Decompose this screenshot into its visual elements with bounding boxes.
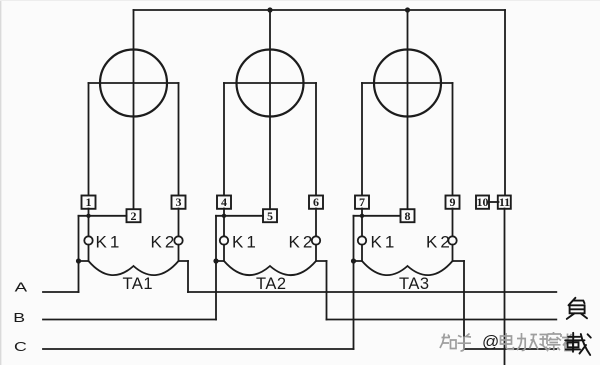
svg-text:9: 9 bbox=[450, 195, 456, 209]
meter element circle W2 bbox=[237, 50, 304, 117]
wire: phase A continues to load bbox=[188, 291, 556, 293]
wire: K1 TA3 down to primary bbox=[361, 245, 363, 261]
wire: phase B continues to load bbox=[327, 319, 557, 321]
wire: TA2 out drop to phase B level bbox=[326, 261, 328, 320]
svg-text:K2: K2 bbox=[289, 232, 316, 251]
svg-text:8: 8 bbox=[405, 209, 411, 223]
top edge shading bbox=[0, 0, 600, 1]
wire: drop to terminal 3 bbox=[178, 83, 180, 196]
wire: K2 TA3 down to primary bbox=[452, 245, 454, 261]
wire: phase A in from left bbox=[43, 291, 79, 293]
svg-text:6: 6 bbox=[313, 195, 319, 209]
wire: current coil bar through circle W2 bbox=[224, 82, 316, 84]
load label 负 bbox=[567, 298, 587, 319]
transformer TA3 primary winding arcs bbox=[354, 261, 465, 275]
K2 terminal circle of TA1 bbox=[174, 236, 182, 244]
wire: drop to terminal 6 bbox=[315, 83, 317, 196]
wire: drop to terminal 9 bbox=[452, 83, 454, 196]
wire: phase C riser to TA3 bbox=[353, 216, 355, 349]
svg-text:4: 4 bbox=[221, 195, 227, 209]
wire: drop to terminal 7 bbox=[361, 83, 363, 196]
watermark 知乎 @电力观察者 bbox=[440, 332, 575, 351]
wire: current coil bar through circle W1 bbox=[89, 82, 179, 84]
svg-text:C: C bbox=[14, 341, 27, 355]
wire: current coil bar through circle W3 bbox=[362, 82, 453, 84]
wire: terminal9 down to K2 of TA3 bbox=[452, 209, 454, 237]
wire: terminal6 down to K2 of TA2 bbox=[315, 209, 317, 237]
wire: jumper terminal1 to terminal2 bbox=[79, 215, 127, 217]
svg-text:K2: K2 bbox=[426, 232, 453, 251]
svg-text:@: @ bbox=[482, 332, 499, 351]
wire: jumper terminal7 to terminal8 bbox=[354, 215, 401, 217]
terminal 2 bbox=[127, 209, 141, 222]
svg-text:7: 7 bbox=[359, 195, 365, 209]
wire: terminal1 down to K1 of TA1 bbox=[88, 209, 90, 237]
node: bus junction at circle2 riser bbox=[267, 7, 272, 12]
node: TA1 primary left junction bbox=[76, 258, 81, 263]
terminal 7 bbox=[355, 196, 369, 209]
meter element circle W1 bbox=[100, 50, 167, 117]
node: jumper tee on terminal7 drop bbox=[360, 214, 364, 218]
terminal 6 bbox=[309, 196, 323, 209]
svg-text:3: 3 bbox=[176, 195, 182, 209]
svg-text:2: 2 bbox=[131, 209, 137, 223]
svg-text:5: 5 bbox=[267, 209, 273, 223]
K1 terminal circle of TA2 bbox=[220, 236, 228, 244]
terminal 5 bbox=[263, 209, 277, 222]
terminal 10 bbox=[476, 196, 489, 209]
K2 terminal circle of TA3 bbox=[448, 236, 456, 244]
node: jumper tee on terminal4 drop bbox=[222, 214, 226, 218]
wire: drop to terminal 1 bbox=[88, 83, 90, 196]
terminal 9 bbox=[446, 196, 460, 209]
svg-text:K1: K1 bbox=[371, 232, 398, 251]
node: TA3 primary left junction bbox=[351, 258, 356, 263]
wire: drop bus to circle1 center / terminal 2 bbox=[133, 10, 135, 209]
svg-text:TA1: TA1 bbox=[123, 275, 154, 293]
wire: K2 TA2 down to primary bbox=[315, 245, 317, 261]
svg-text:11: 11 bbox=[499, 195, 510, 209]
wire: K1 TA2 down to primary bbox=[223, 245, 225, 261]
svg-text:B: B bbox=[13, 312, 25, 326]
svg-text:TA3: TA3 bbox=[399, 275, 430, 293]
node: TA2 primary left junction bbox=[213, 258, 218, 263]
wire: terminal4 down to K1 of TA2 bbox=[223, 209, 225, 237]
svg-text:K2: K2 bbox=[151, 232, 178, 251]
svg-text:K1: K1 bbox=[96, 232, 123, 251]
wire: TA3 out drop to phase C level bbox=[463, 261, 465, 349]
wire: jumper terminal4 to terminal5 bbox=[216, 215, 263, 217]
wire: terminal11 down to bottom edge bbox=[504, 209, 506, 365]
load label 载 bbox=[565, 333, 591, 355]
wire: drop to terminal 4 bbox=[223, 83, 225, 196]
transformer TA1 primary winding arcs bbox=[79, 261, 189, 275]
K1 terminal circle of TA1 bbox=[84, 236, 92, 244]
wire: drop bus right end to terminal 11 bbox=[504, 10, 506, 196]
wire: phase C continues to load bbox=[464, 348, 556, 350]
terminal 3 bbox=[172, 196, 186, 209]
wire: phase C in from left bbox=[43, 348, 354, 350]
K1 terminal circle of TA3 bbox=[358, 236, 366, 244]
svg-text:10: 10 bbox=[477, 195, 489, 209]
wire: phase B riser to TA2 bbox=[215, 216, 217, 320]
terminal 11 bbox=[498, 196, 511, 209]
terminal 1 bbox=[82, 196, 96, 209]
transformer TA2 primary winding arcs bbox=[216, 261, 327, 275]
meter element circle W3 bbox=[374, 50, 441, 117]
wire: jumper terminal10 to terminal11 bbox=[489, 201, 499, 203]
node: bus junction at circle3 riser bbox=[405, 7, 410, 12]
wire: terminal7 down to K1 of TA3 bbox=[361, 209, 363, 237]
left edge shading bbox=[0, 0, 1, 365]
wire: terminal3 down to K2 of TA1 bbox=[178, 209, 180, 237]
svg-text:K1: K1 bbox=[232, 232, 259, 251]
wire: K1 TA1 down to primary bbox=[88, 245, 90, 261]
wire: phase B in from left bbox=[43, 319, 216, 321]
node: jumper tee on terminal1 drop bbox=[86, 214, 90, 218]
svg-text:1: 1 bbox=[86, 195, 92, 209]
wire: TA1 out drop to phase A level bbox=[187, 261, 189, 292]
wire: drop bus junction to circle2 center / terminal 5 bbox=[269, 10, 271, 209]
wire: drop bus junction to circle3 center / terminal 8 bbox=[407, 10, 409, 209]
K2 terminal circle of TA2 bbox=[312, 236, 320, 244]
svg-text:A: A bbox=[15, 281, 28, 294]
svg-text:TA2: TA2 bbox=[256, 275, 287, 293]
wire: top voltage bus bbox=[134, 9, 506, 11]
wire: phase A riser to TA1 bbox=[78, 216, 80, 292]
wire: K2 TA1 down to primary bbox=[178, 245, 180, 261]
terminal 8 bbox=[401, 209, 415, 222]
terminal 4 bbox=[217, 196, 231, 209]
